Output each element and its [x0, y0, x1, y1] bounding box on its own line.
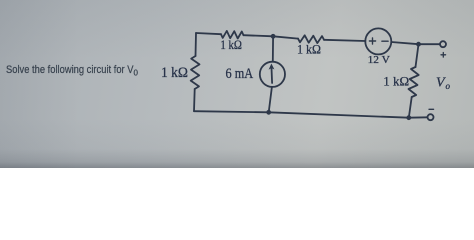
terminal bottom-right open circle: [428, 114, 434, 120]
terminal top-right open circle: [440, 41, 446, 47]
wire RR to bottom node B2: [409, 97, 412, 118]
current source arrowhead: [269, 64, 275, 70]
bottom node A2 junction dot: [266, 110, 271, 115]
resistor R2 1 kOhm (top middle): [298, 35, 324, 43]
wire node B to terminal plus: [419, 43, 441, 45]
terminal plus mark: [441, 53, 446, 58]
svg-text:V: V: [436, 76, 446, 91]
voltage source plus sign: [369, 38, 375, 44]
svg-text:1 kΩ: 1 kΩ: [297, 42, 321, 57]
svg-text:1 kΩ: 1 kΩ: [220, 37, 242, 52]
wire current source to bottom node: [269, 87, 272, 112]
terminal minus mark: [429, 108, 434, 110]
resistor RL 1 kOhm (left branch): [191, 56, 200, 89]
bottom node B2 junction dot: [406, 115, 411, 120]
node B junction dot: [416, 42, 421, 47]
wire node B down to RR: [416, 44, 419, 67]
svg-text:12 V: 12 V: [368, 55, 391, 66]
svg-text:Solve the following circuit fo: Solve the following circuit for V: [6, 64, 134, 76]
wire left branch top: [195, 33, 198, 56]
voltage source minus sign: [382, 40, 388, 42]
voltage source V1 12V circle: [365, 28, 391, 54]
wire R2 to voltage source: [324, 40, 365, 41]
wire bottom node to terminal minus: [409, 116, 428, 118]
svg-text:1 kΩ: 1 kΩ: [161, 65, 188, 81]
wire left branch bottom: [193, 89, 196, 111]
svg-text:6 mA: 6 mA: [226, 66, 254, 82]
current source I1 6mA circle: [260, 62, 285, 87]
svg-text:1 kΩ: 1 kΩ: [383, 73, 409, 88]
node A junction dot: [271, 34, 276, 39]
svg-text:o: o: [446, 81, 451, 91]
wire node A down to current source: [272, 36, 274, 61]
resistor R1 1 kOhm (top left): [221, 31, 244, 39]
wire R1 to node A: [244, 35, 274, 36]
wire node A to R2: [273, 36, 298, 38]
svg-text:0: 0: [134, 69, 139, 78]
wire voltage source to node B: [391, 42, 418, 44]
wire top-left horizontal: [196, 33, 221, 34]
wire bottom rail: [194, 111, 409, 118]
current source arrow shaft: [271, 68, 274, 83]
resistor RR 1 kOhm (right branch): [409, 67, 419, 97]
